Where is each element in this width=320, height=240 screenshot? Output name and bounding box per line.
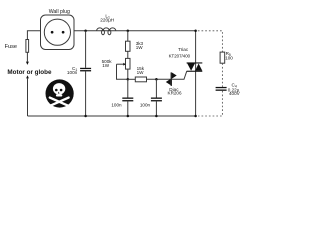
wire triac vertical [195,31,197,116]
wire to R1 [127,31,129,41]
diac label [168,87,182,96]
potentiometer P1 body [126,58,131,69]
node A junction [127,78,130,81]
svg-text:400V: 400V [229,91,241,96]
capacitor C4 label [228,83,241,96]
node junction triac top [194,30,197,33]
wire node A to R2 [128,78,136,80]
potentiometer wiper arrow [117,63,126,66]
capacitor C4 plates [216,87,227,91]
triac label [169,47,191,58]
svg-text:100n: 100n [67,70,78,75]
capacitor C3 plates [151,98,162,102]
capacitor C1 label [67,66,78,75]
triac T1 KT207/400 [187,62,203,71]
node B junction [155,78,158,81]
hazard skull symbol [46,79,74,107]
svg-text:1W: 1W [137,70,145,75]
dashed wire R5 to C4 [221,63,223,87]
node junction after L1 [127,30,130,33]
node junction C1 bottom [84,115,87,118]
wire diac to triac gate [172,71,187,79]
svg-text:1W: 1W [102,63,110,68]
wire R1 to pot [127,51,129,58]
wire wiper loop [117,64,128,79]
wire top rail from plug to triac [74,30,196,32]
wire C1 branch lower [85,71,87,116]
wire C2 to bottom rail [127,101,129,116]
resistor R2 label [137,66,145,75]
inductor L1 coil [97,28,116,35]
wire pot bottom to node A [127,69,129,79]
resistor R5 label [225,51,233,60]
wire R2 to node B and diac [147,78,171,80]
fuse F1 [26,40,29,62]
node junction at plug output [84,30,87,33]
capacitor C1 plates [80,68,91,72]
diac D1 KR206 [166,72,177,86]
wall plug socket [41,15,75,50]
resistor R1 3k3 [126,41,131,51]
svg-text:Wall plug: Wall plug [49,9,70,15]
wire node B capacitor branch [155,79,157,97]
resistor R2 15k [135,77,146,82]
resistor R1 label [136,41,144,50]
wire left lead from plug to fuse [27,31,40,40]
svg-text:220µH: 220µH [100,18,114,23]
svg-text:KR206: KR206 [168,91,182,96]
wire C1 branch upper [85,31,87,68]
svg-text:Fuse: Fuse [5,44,17,50]
capacitor C2 plates [122,98,133,102]
resistor R5 snubber [220,52,225,63]
svg-text:Motor or globe: Motor or globe [7,69,52,76]
svg-text:KT207/400: KT207/400 [169,53,191,58]
svg-text:100n: 100n [111,103,122,108]
svg-text:100: 100 [225,55,233,60]
arrow to load (down) [26,62,29,65]
wire node A capacitor branch [127,79,129,97]
dashed wire C4 to bottom rail [198,91,222,116]
wire C3 to bottom rail [155,101,157,116]
svg-text:Triac: Triac [178,47,189,52]
wire load return to bottom rail [27,78,29,116]
svg-text:1W: 1W [136,45,144,50]
node junction triac bottom [194,115,197,118]
svg-text:100n: 100n [140,103,151,108]
potentiometer P1 label [102,59,113,68]
wire bottom rail [28,115,197,117]
inductor L1 label [100,13,114,22]
node junction C3 bottom [155,115,158,118]
dashed wire snubber top [198,31,223,52]
node junction C2 bottom [127,115,130,118]
arrow from load (up) [26,75,29,78]
